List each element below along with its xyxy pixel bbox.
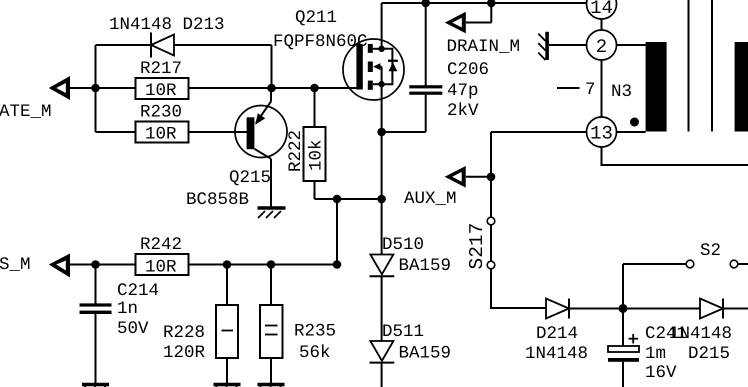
wire pin14 to pin2 — [601, 19, 603, 30]
svg-text:S2: S2 — [700, 241, 721, 261]
wire D213 anode row left — [96, 44, 152, 46]
junction node source / C206 bottom — [377, 128, 386, 137]
wire to R222 node — [272, 87, 315, 89]
svg-text:10R: 10R — [145, 125, 177, 145]
svg-text:BC858B: BC858B — [186, 190, 249, 210]
wire S2 row left — [623, 263, 686, 265]
wire pin2 to pin13 — [601, 60, 603, 117]
ground at C214 — [82, 385, 109, 387]
svg-text:S_M: S_M — [0, 255, 31, 275]
capacitor C206 — [382, 3, 443, 132]
svg-text:R228: R228 — [163, 323, 205, 343]
capacitor C214 — [80, 265, 112, 384]
svg-text:10R: 10R — [145, 258, 177, 278]
junction node C206 top — [421, 0, 430, 7]
diode D215 — [700, 299, 723, 319]
wire gate arrow to node — [70, 87, 96, 89]
connector S217 pin top — [487, 217, 495, 225]
wire down to S row — [336, 199, 338, 265]
svg-text:S217: S217 — [466, 223, 488, 270]
svg-text:DRAIN_M: DRAIN_M — [447, 37, 521, 57]
wire source down — [381, 85, 383, 199]
wire pin13 to winding — [617, 131, 646, 133]
wire pin13 bottom stub — [602, 147, 748, 165]
transformer N3 pin 14 — [587, 0, 617, 19]
wire pin13 row to aux corner — [491, 131, 587, 133]
diode D511 — [370, 341, 395, 363]
wire R235 top lead — [270, 265, 272, 306]
wire node to R242 — [96, 264, 136, 266]
svg-text:D214: D214 — [536, 324, 578, 344]
wire pin2 to winding — [617, 44, 646, 46]
wire R222 bottom lead — [314, 181, 316, 199]
resistor R222 — [304, 127, 327, 181]
junction node right end — [333, 260, 342, 269]
svg-text:7: 7 — [585, 80, 596, 100]
resistor R235 — [260, 305, 283, 358]
wire top rail — [382, 2, 587, 4]
svg-text:14: 14 — [590, 0, 613, 19]
svg-text:R242: R242 — [140, 235, 182, 255]
wire aux vertical — [490, 132, 492, 217]
wire R235 bottom lead — [270, 358, 272, 383]
wire R222 bottom row — [315, 198, 382, 200]
wire source node down to D510 — [381, 199, 383, 255]
wire R228 top lead — [226, 265, 228, 306]
transistor Q215 — [235, 88, 287, 207]
wire drain up — [381, 3, 383, 49]
resistor R242 — [136, 254, 189, 278]
connector S217 pin bottom — [487, 261, 495, 269]
resistor R228 — [216, 305, 238, 358]
junction node AUX — [487, 173, 496, 182]
junction node at R222 top — [310, 84, 319, 93]
svg-text:120R: 120R — [163, 343, 206, 363]
svg-text:16V: 16V — [645, 363, 677, 383]
transformer core line 1 — [688, 0, 690, 132]
wire D214 to node — [569, 308, 623, 310]
junction node D214 cathode — [619, 304, 628, 313]
wire D215 to edge — [723, 308, 748, 310]
junction node R228 — [223, 260, 232, 269]
svg-text:C206: C206 — [447, 60, 489, 80]
wire D213 to right corner — [174, 44, 272, 46]
wire R230 to Q215 base — [189, 131, 248, 133]
wire S2 right — [738, 263, 748, 265]
ground at R235 — [258, 385, 285, 387]
wire D510 to D511 — [381, 276, 383, 341]
svg-text:1N4148: 1N4148 — [669, 324, 732, 344]
node AUX_M arrow — [445, 166, 491, 188]
junction node mid — [333, 195, 342, 204]
node GATE_M arrow — [49, 76, 70, 100]
svg-text:50V: 50V — [117, 319, 149, 339]
svg-text:Q215: Q215 — [229, 168, 271, 188]
junction node at gate net — [91, 84, 100, 93]
junction node S row — [91, 260, 100, 269]
wire D511 to edge — [381, 363, 383, 387]
svg-text:R217: R217 — [140, 59, 182, 79]
svg-text:D215: D215 — [688, 344, 730, 364]
resistor R217 — [136, 78, 189, 101]
svg-text:1N4148 D213: 1N4148 D213 — [109, 15, 225, 35]
wire arrow to node — [70, 264, 96, 266]
svg-text:AUX_M: AUX_M — [404, 189, 457, 209]
svg-text:1m: 1m — [645, 344, 666, 364]
wire node up to S2 row — [622, 264, 624, 309]
svg-text:BA159: BA159 — [399, 256, 452, 276]
transformer core line 2 — [711, 0, 713, 132]
mosfet Q211 — [343, 39, 404, 100]
diode D510 — [370, 255, 395, 277]
connector S2 pin right — [730, 260, 738, 268]
wire to Q211 gate — [315, 87, 358, 89]
svg-text:R222: R222 — [286, 130, 306, 172]
svg-text:R230: R230 — [140, 103, 182, 123]
capacitor C241 — [608, 309, 639, 387]
svg-text:56k: 56k — [299, 343, 331, 363]
svg-text:BA159: BA159 — [399, 344, 452, 364]
node S_M arrow — [49, 254, 70, 278]
transformer N3 pin 13 — [587, 117, 617, 147]
wire D213 right corner down — [271, 45, 273, 88]
ground at R228 — [214, 385, 241, 387]
wire hatch to pin 2 — [549, 44, 587, 46]
svg-text:Q211: Q211 — [295, 8, 337, 28]
svg-text:2kV: 2kV — [447, 101, 479, 121]
connector S2 pin left — [686, 260, 694, 268]
phase dot — [630, 118, 639, 127]
wire R228 bottom lead — [226, 358, 228, 383]
svg-text:10k: 10k — [307, 139, 327, 171]
wire S217 down and right — [491, 269, 546, 308]
svg-text:D511: D511 — [382, 322, 424, 342]
svg-text:2: 2 — [596, 36, 607, 58]
wire between S217 pins — [490, 225, 492, 261]
wire to R230 — [96, 131, 136, 133]
diode D214 — [546, 299, 569, 319]
svg-text:47p: 47p — [447, 81, 479, 101]
resistor R230 — [136, 122, 189, 145]
svg-text:C214: C214 — [117, 281, 159, 301]
junction node R235 — [267, 260, 276, 269]
svg-text:R235: R235 — [294, 322, 336, 342]
svg-text:FQPF8N60C: FQPF8N60C — [273, 32, 368, 52]
wire node to D215 — [623, 308, 700, 310]
pin 7 stub — [557, 87, 580, 89]
chassis hatch at pin 2 — [538, 32, 549, 60]
chassis ground at Q215 collector — [258, 208, 286, 218]
svg-text:10R: 10R — [145, 81, 177, 101]
svg-text:1n: 1n — [117, 299, 138, 319]
wire node to R217 — [96, 87, 136, 89]
junction node source line — [377, 195, 386, 204]
svg-text:D510: D510 — [382, 235, 424, 255]
wire node up to D213 row — [95, 45, 97, 88]
junction node at Q215 emitter branch — [267, 84, 276, 93]
svg-text:N3: N3 — [611, 82, 632, 102]
svg-text:ATE_M: ATE_M — [0, 102, 52, 122]
winding bar N3 primary — [646, 42, 667, 132]
wire node down to R230 row — [95, 88, 97, 132]
wire R222 top lead — [314, 88, 316, 127]
wire R217 to node — [189, 87, 272, 89]
wire R242 to right — [189, 264, 338, 266]
transformer N3 pin 2 — [587, 30, 617, 60]
node DRAIN_M arrow — [445, 3, 492, 33]
svg-text:1N4148: 1N4148 — [525, 344, 588, 364]
svg-text:13: 13 — [590, 123, 613, 145]
junction node DRAIN_M stub — [487, 0, 496, 7]
diode D213 — [151, 33, 174, 58]
winding bar secondary — [735, 42, 748, 132]
